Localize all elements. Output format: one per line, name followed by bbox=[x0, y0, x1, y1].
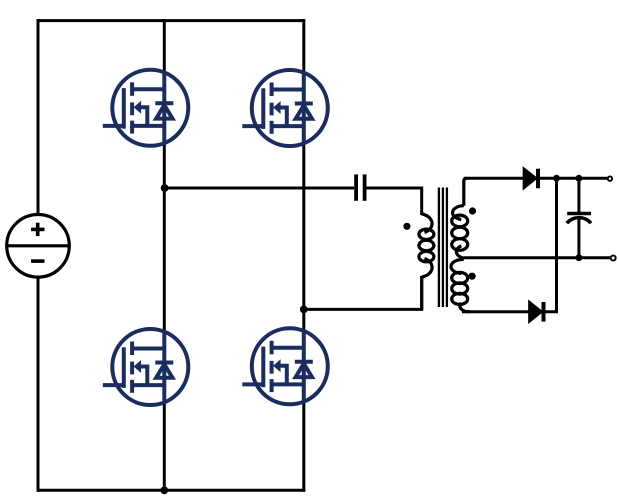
diode D2 bbox=[529, 301, 544, 322]
diode D1 bbox=[523, 168, 538, 189]
transformer T1 secondary top winding bbox=[452, 178, 468, 258]
transformer T1 primary winding bbox=[419, 212, 434, 310]
wire rectifier right vertical bbox=[544, 178, 557, 311]
wire top rail bbox=[37, 19, 306, 22]
mosfet Q2 bbox=[242, 70, 328, 146]
node D (rectifier output) bbox=[553, 175, 560, 182]
node A (left leg midpoint) bbox=[161, 184, 169, 192]
wire left side lower bbox=[37, 276, 40, 492]
wire right bridge leg bbox=[302, 19, 305, 492]
wire bridge mid to capacitor bbox=[164, 187, 354, 190]
transformer T1 primary phase dot bbox=[403, 223, 410, 230]
transformer T1 secondary bottom winding bbox=[451, 259, 470, 311]
mosfet Q4 bbox=[242, 328, 328, 404]
mosfet Q3 bbox=[103, 329, 189, 405]
wire left side upper bbox=[37, 19, 40, 215]
wire secondary bottom to D2 anode bbox=[462, 310, 529, 313]
wire transformer primary bottom return bbox=[304, 278, 422, 310]
transformer T1 secondary bottom phase dot bbox=[469, 273, 476, 280]
node B (right leg midpoint) bbox=[300, 306, 308, 314]
wire left bridge leg bbox=[163, 19, 166, 492]
mosfet Q1 bbox=[103, 70, 189, 146]
capacitor C2 bbox=[567, 178, 591, 257]
wire capacitor to transformer primary top bbox=[367, 188, 422, 212]
wire D1 cathode to output plus bbox=[538, 177, 607, 180]
node F (cap bottom tap) bbox=[575, 254, 582, 261]
voltage source V1 bbox=[7, 215, 70, 278]
wire bottom rail bbox=[37, 489, 306, 492]
node E (cap top tap) bbox=[575, 175, 582, 182]
wire center tap rail bbox=[464, 256, 610, 259]
terminal output plus bbox=[608, 176, 612, 180]
wire secondary top rail bbox=[464, 177, 524, 180]
terminal output minus bbox=[611, 256, 616, 261]
transformer T1 secondary top phase dot bbox=[469, 207, 476, 214]
capacitor C1 bbox=[356, 174, 365, 200]
node C (bottom rail junction) bbox=[160, 486, 168, 494]
transformer T1 core bbox=[439, 188, 447, 308]
